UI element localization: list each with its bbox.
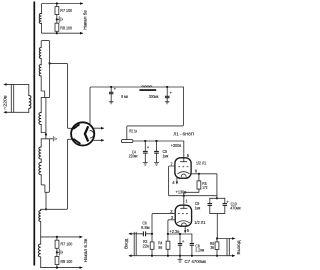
svg-text:1мк: 1мк [163,154,169,159]
svg-text:470мк: 470мк [230,206,241,211]
svg-text:R8 100: R8 100 [61,259,73,264]
svg-text:R2 1к: R2 1к [129,129,137,134]
svg-text:Накал 6.3в: Накал 6.3в [83,238,88,262]
svg-text:1/2 Л1: 1/2 Л1 [194,220,206,225]
svg-text:+130в: +130в [176,190,187,195]
svg-text:+300в: +300в [171,143,182,148]
svg-text:22к: 22к [143,244,150,249]
svg-text:300мк: 300мк [149,94,159,99]
svg-text:1/2 Л1: 1/2 Л1 [196,160,207,165]
svg-text:R7 100: R7 100 [60,8,72,13]
svg-text:220мк: 220мк [129,154,138,159]
svg-text:Л1 - 6Н8П: Л1 - 6Н8П [173,131,194,136]
svg-text:~220в: ~220в [3,95,8,110]
svg-text:Вход: Вход [124,238,129,248]
svg-text:36: 36 [210,245,214,250]
svg-text:2.2мк: 2.2мк [195,248,205,253]
svg-text:1мк: 1мк [195,205,201,210]
svg-text:Выход: Выход [236,240,241,254]
svg-text:86: 86 [158,245,162,250]
svg-text:R7 100: R7 100 [61,241,73,246]
svg-text:+2.3в: +2.3в [169,229,179,234]
svg-text:6.8м: 6.8м [141,225,149,230]
svg-text:8 мк: 8 мк [121,94,128,99]
svg-text:C7 4700мк: C7 4700мк [185,259,207,264]
svg-text:R8 100: R8 100 [60,26,72,31]
svg-text:Накал 5в: Накал 5в [82,10,87,30]
svg-text:172: 172 [202,185,207,190]
